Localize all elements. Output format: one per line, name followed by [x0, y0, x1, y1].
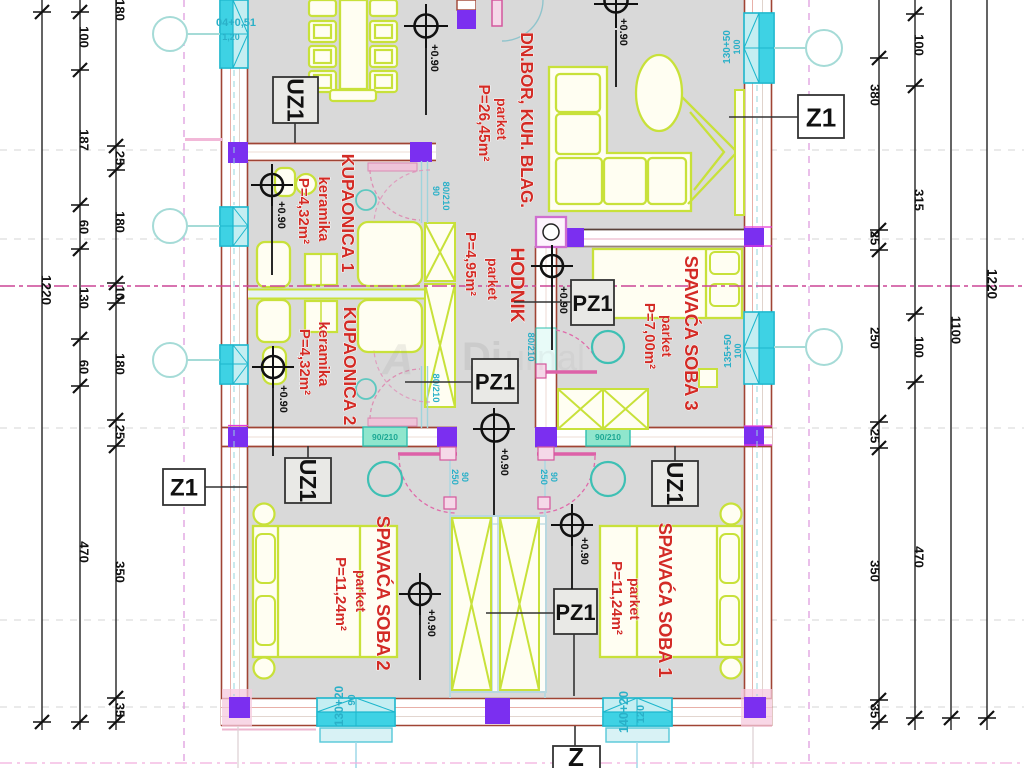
- LAYER: faint grid: [0, 150, 1024, 707]
- svg-text:470: 470: [77, 541, 92, 563]
- svg-text:180: 180: [113, 0, 128, 21]
- elevation marker hodnik: [531, 245, 573, 350]
- dim line right third: [942, 0, 964, 730]
- purple block bottom left corner: [229, 697, 250, 718]
- svg-text:P=4,32m²: P=4,32m²: [295, 178, 312, 244]
- svg-text:SPAVAĆA SOBA 1: SPAVAĆA SOBA 1: [655, 523, 676, 678]
- svg-text:Z1: Z1: [170, 475, 198, 502]
- window bottom wall left: [317, 698, 395, 768]
- svg-text:+0.90: +0.90: [428, 44, 440, 72]
- purple block top stub: [457, 10, 476, 29]
- elevation marker bath2: [252, 346, 294, 456]
- window right wall top: [744, 13, 774, 83]
- wall D living/soba3: [557, 229, 744, 247]
- box Z1 left: [163, 469, 247, 505]
- purple block wallA right: [410, 142, 432, 162]
- bath1 tub: [257, 242, 290, 287]
- wall B right segment: [535, 427, 772, 447]
- grid bubble right 1: [774, 30, 842, 66]
- svg-text:+0.90: +0.90: [425, 609, 437, 637]
- elevation marker soba2: [399, 573, 441, 680]
- bath2 wc: [263, 347, 286, 384]
- svg-text:parket: parket: [659, 315, 675, 357]
- svg-text:250: 250: [449, 469, 460, 485]
- nightstand soba1 bottom: [721, 658, 742, 679]
- svg-text:250: 250: [868, 327, 883, 349]
- svg-text:100: 100: [912, 336, 927, 358]
- svg-text:04+0,51: 04+0,51: [216, 17, 256, 29]
- gridline h2: [0, 238, 1024, 240]
- window left wall low: [220, 345, 248, 384]
- bottom exterior wall: [221, 698, 772, 726]
- purple block wallD right: [744, 228, 764, 247]
- svg-text:UZ1: UZ1: [283, 78, 309, 122]
- bed soba1: [600, 526, 742, 657]
- dim line right second: [906, 0, 927, 730]
- svg-text:60: 60: [77, 220, 92, 234]
- svg-text:90: 90: [549, 472, 559, 482]
- dim line right inner: [868, 0, 889, 730]
- window bottom wall right: [603, 698, 672, 768]
- wall B left segment: [221, 427, 457, 447]
- nightstand soba3: [699, 369, 717, 387]
- svg-text:parket: parket: [494, 98, 510, 140]
- bottom pink dashed line: [0, 762, 1024, 764]
- purple block wallB ll: [228, 427, 248, 447]
- pale projection line below right corner: [752, 726, 754, 768]
- pale projection line below left corner: [237, 726, 239, 768]
- magenta wall edge at soba3 purple: [228, 227, 772, 445]
- svg-text:+0.90: +0.90: [578, 537, 590, 565]
- gridline h3: [0, 427, 1024, 429]
- svg-text:25: 25: [868, 429, 883, 443]
- entry door top: [476, 0, 543, 41]
- left exterior wall: [221, 0, 248, 726]
- svg-text:350: 350: [113, 561, 128, 583]
- nightstand soba2 bottom: [254, 658, 275, 679]
- svg-text:180: 180: [113, 353, 128, 375]
- corridor niche wall left: [449, 447, 451, 698]
- door bath2: [356, 366, 428, 428]
- hall closet strip: [425, 223, 455, 407]
- gridline h5: [0, 706, 1024, 708]
- svg-text:90: 90: [460, 472, 470, 482]
- svg-text:35: 35: [113, 703, 128, 717]
- purple block wallB rl: [535, 427, 557, 447]
- dining chairs left: [309, 0, 336, 92]
- door bath1: [356, 161, 428, 223]
- svg-text:90/210: 90/210: [372, 432, 398, 442]
- svg-text:UZ1: UZ1: [662, 462, 688, 506]
- svg-text:250: 250: [538, 469, 549, 485]
- corridor closets: [450, 516, 546, 692]
- plot axis vertical right: [808, 0, 810, 764]
- bed soba3: [593, 249, 742, 318]
- box UZ1 soba1: [652, 446, 698, 506]
- nightstand soba2 top: [254, 504, 275, 525]
- window left wall top: [220, 0, 248, 68]
- pink stub line west of wall A: [185, 138, 222, 141]
- svg-text:140+20: 140+20: [617, 691, 631, 733]
- svg-text:+0.90: +0.90: [557, 286, 569, 314]
- window right wall mid: [744, 312, 774, 384]
- pink sill line below bottom-left corner: [222, 729, 316, 731]
- bath2 washer: [305, 301, 337, 332]
- bed soba2: [253, 526, 397, 657]
- svg-text:parket: parket: [627, 578, 643, 620]
- grid bubble left 1: [153, 17, 220, 51]
- table end bench: [330, 90, 376, 101]
- box Z1 right: [729, 95, 844, 138]
- wall C hall/soba3: [535, 246, 557, 428]
- wall A living/bath1: [228, 143, 436, 162]
- grid bubble left 3: [153, 343, 220, 377]
- box PZ1 bottom: [486, 589, 597, 696]
- purple block bottom right corner: [744, 697, 766, 718]
- svg-text:25: 25: [113, 425, 128, 439]
- svg-text:90/210: 90/210: [595, 432, 621, 442]
- door soba2: [368, 447, 457, 513]
- svg-text:DN.BOR, KUH. BLAG.: DN.BOR, KUH. BLAG.: [517, 32, 537, 207]
- svg-text:315: 315: [912, 189, 927, 211]
- box Z bottom: [553, 726, 600, 768]
- svg-text:PZ1: PZ1: [555, 600, 595, 625]
- svg-text:+0.90: +0.90: [277, 385, 289, 413]
- svg-text:UZ1: UZ1: [295, 459, 321, 503]
- svg-text:60: 60: [77, 360, 92, 374]
- svg-text:Z1: Z1: [806, 103, 836, 133]
- bath1 wc: [275, 168, 295, 196]
- bath1 washer: [305, 254, 337, 285]
- svg-text:35: 35: [868, 704, 883, 718]
- purple block wallD left: [566, 228, 584, 247]
- sofa L: [549, 67, 691, 211]
- svg-text:HODNIK: HODNIK: [506, 248, 527, 323]
- svg-text:Z: Z: [568, 742, 584, 768]
- elevation marker soba1: [551, 504, 593, 589]
- svg-text:P=4,95m²: P=4,95m²: [462, 232, 478, 296]
- svg-text:187: 187: [77, 129, 92, 151]
- svg-text:120: 120: [635, 705, 647, 723]
- svg-text:P=26,45m²: P=26,45m²: [475, 84, 492, 161]
- door soba3: [536, 330, 624, 378]
- box PZ1 soba3: [514, 280, 614, 325]
- grid bubble left 2: [153, 209, 220, 243]
- elevation marker living 2: [594, 0, 638, 87]
- svg-text:25: 25: [868, 231, 883, 245]
- shaft box with circle: [536, 217, 566, 247]
- bath1 sink: [296, 174, 316, 194]
- svg-text:80/210: 80/210: [440, 181, 451, 210]
- svg-text:80/210: 80/210: [430, 373, 441, 402]
- wardrobe soba3: [558, 389, 648, 429]
- party wall between bathrooms: [248, 289, 424, 299]
- svg-text:P=7,00m²: P=7,00m²: [641, 303, 658, 369]
- opening wall B left (teal): [363, 427, 407, 446]
- svg-text:SPAVAĆA SOBA 3: SPAVAĆA SOBA 3: [681, 256, 702, 411]
- dining table: [340, 0, 367, 89]
- box PZ1 hall: [405, 359, 518, 403]
- svg-text:parket: parket: [353, 570, 369, 612]
- top stub wall: [457, 0, 476, 10]
- dining chairs right: [370, 0, 397, 92]
- dim line left middle: [71, 0, 92, 730]
- box UZ1 living: [273, 77, 318, 143]
- purple block bottom center: [485, 698, 510, 724]
- svg-text:10: 10: [113, 286, 128, 300]
- purple block wallA left: [228, 142, 248, 163]
- purple block wallB lr: [437, 427, 457, 447]
- centerline horizontal magenta: [0, 285, 1024, 287]
- dim line left inner: [107, 0, 128, 730]
- svg-text:25: 25: [113, 151, 128, 165]
- pink corner tint bottom left: [222, 689, 252, 727]
- pink corner tint bottom right: [741, 689, 772, 727]
- svg-text:130+20: 130+20: [332, 685, 346, 726]
- svg-text:100: 100: [732, 39, 742, 54]
- svg-text:+0.90: +0.90: [617, 18, 629, 46]
- svg-text:+0.90: +0.90: [275, 201, 287, 229]
- svg-text:100: 100: [912, 34, 927, 56]
- svg-text:380: 380: [868, 84, 883, 106]
- svg-text:1220: 1220: [985, 269, 1000, 299]
- svg-text:parket: parket: [485, 258, 501, 300]
- svg-text:PZ1: PZ1: [475, 370, 515, 395]
- svg-text:PZ1: PZ1: [572, 291, 612, 316]
- svg-text:KUPAONICA 1: KUPAONICA 1: [338, 154, 358, 273]
- dim line right outer: [978, 0, 1000, 730]
- svg-text:350: 350: [868, 560, 883, 582]
- elevation marker bath1: [251, 164, 293, 275]
- svg-text:1,20: 1,20: [222, 32, 240, 42]
- right exterior wall: [744, 0, 772, 726]
- svg-text:90: 90: [347, 694, 358, 706]
- gridline h4: [0, 619, 1024, 621]
- purple block wallB rr: [744, 426, 764, 446]
- opening wall C (door soba3): [536, 328, 556, 372]
- svg-text:130: 130: [77, 287, 92, 309]
- grid bubble right 2: [774, 329, 842, 365]
- axis line left wall: [233, 70, 235, 205]
- opening wall B right (teal): [586, 427, 630, 446]
- svg-text:P=11,24m²: P=11,24m²: [332, 557, 349, 631]
- svg-text:100: 100: [77, 26, 92, 48]
- elevation marker living 1: [404, 4, 448, 115]
- svg-text:1100: 1100: [949, 316, 964, 344]
- svg-text:1220: 1220: [39, 275, 54, 305]
- svg-text:90: 90: [431, 186, 441, 196]
- plot axis vertical left: [183, 0, 185, 764]
- svg-text:470: 470: [912, 546, 927, 568]
- hall entry arc to bath2: [374, 350, 430, 402]
- svg-text:P=4,32m²: P=4,32m²: [296, 329, 313, 395]
- svg-text:KUPAONICA 2: KUPAONICA 2: [340, 307, 360, 426]
- bath2 tub: [257, 300, 290, 342]
- axis line right wall: [756, 85, 758, 226]
- nightstand soba1 top: [721, 504, 742, 525]
- svg-text:+0.90: +0.90: [498, 448, 510, 476]
- hall entry arc from wall A: [374, 170, 430, 222]
- gridline h1: [0, 149, 1024, 151]
- window left wall mid: [220, 207, 248, 246]
- box UZ1 soba2: [285, 446, 331, 503]
- bath2 shower: [358, 300, 422, 352]
- watermark: [381, 335, 585, 384]
- svg-text:keramika: keramika: [315, 321, 332, 387]
- svg-text:P=11,24m²: P=11,24m²: [608, 561, 625, 635]
- dim line left outer: [33, 0, 54, 730]
- corridor door jambs low: [444, 497, 456, 509]
- bath1 shower: [358, 222, 422, 286]
- oval table: [636, 55, 682, 131]
- elevation marker corridor: [473, 408, 515, 515]
- armchair chevron: [682, 97, 737, 204]
- svg-text:180: 180: [113, 211, 128, 233]
- floor slab gray: [246, 0, 746, 700]
- corridor niche wall right: [544, 447, 546, 698]
- svg-text:100: 100: [733, 343, 743, 358]
- svg-text:keramika: keramika: [315, 176, 332, 242]
- svg-text:A: A: [381, 335, 414, 384]
- door soba1: [537, 447, 625, 513]
- svg-text:SPAVAĆA SOBA 2: SPAVAĆA SOBA 2: [373, 516, 394, 671]
- tv strip right wall: [735, 90, 744, 215]
